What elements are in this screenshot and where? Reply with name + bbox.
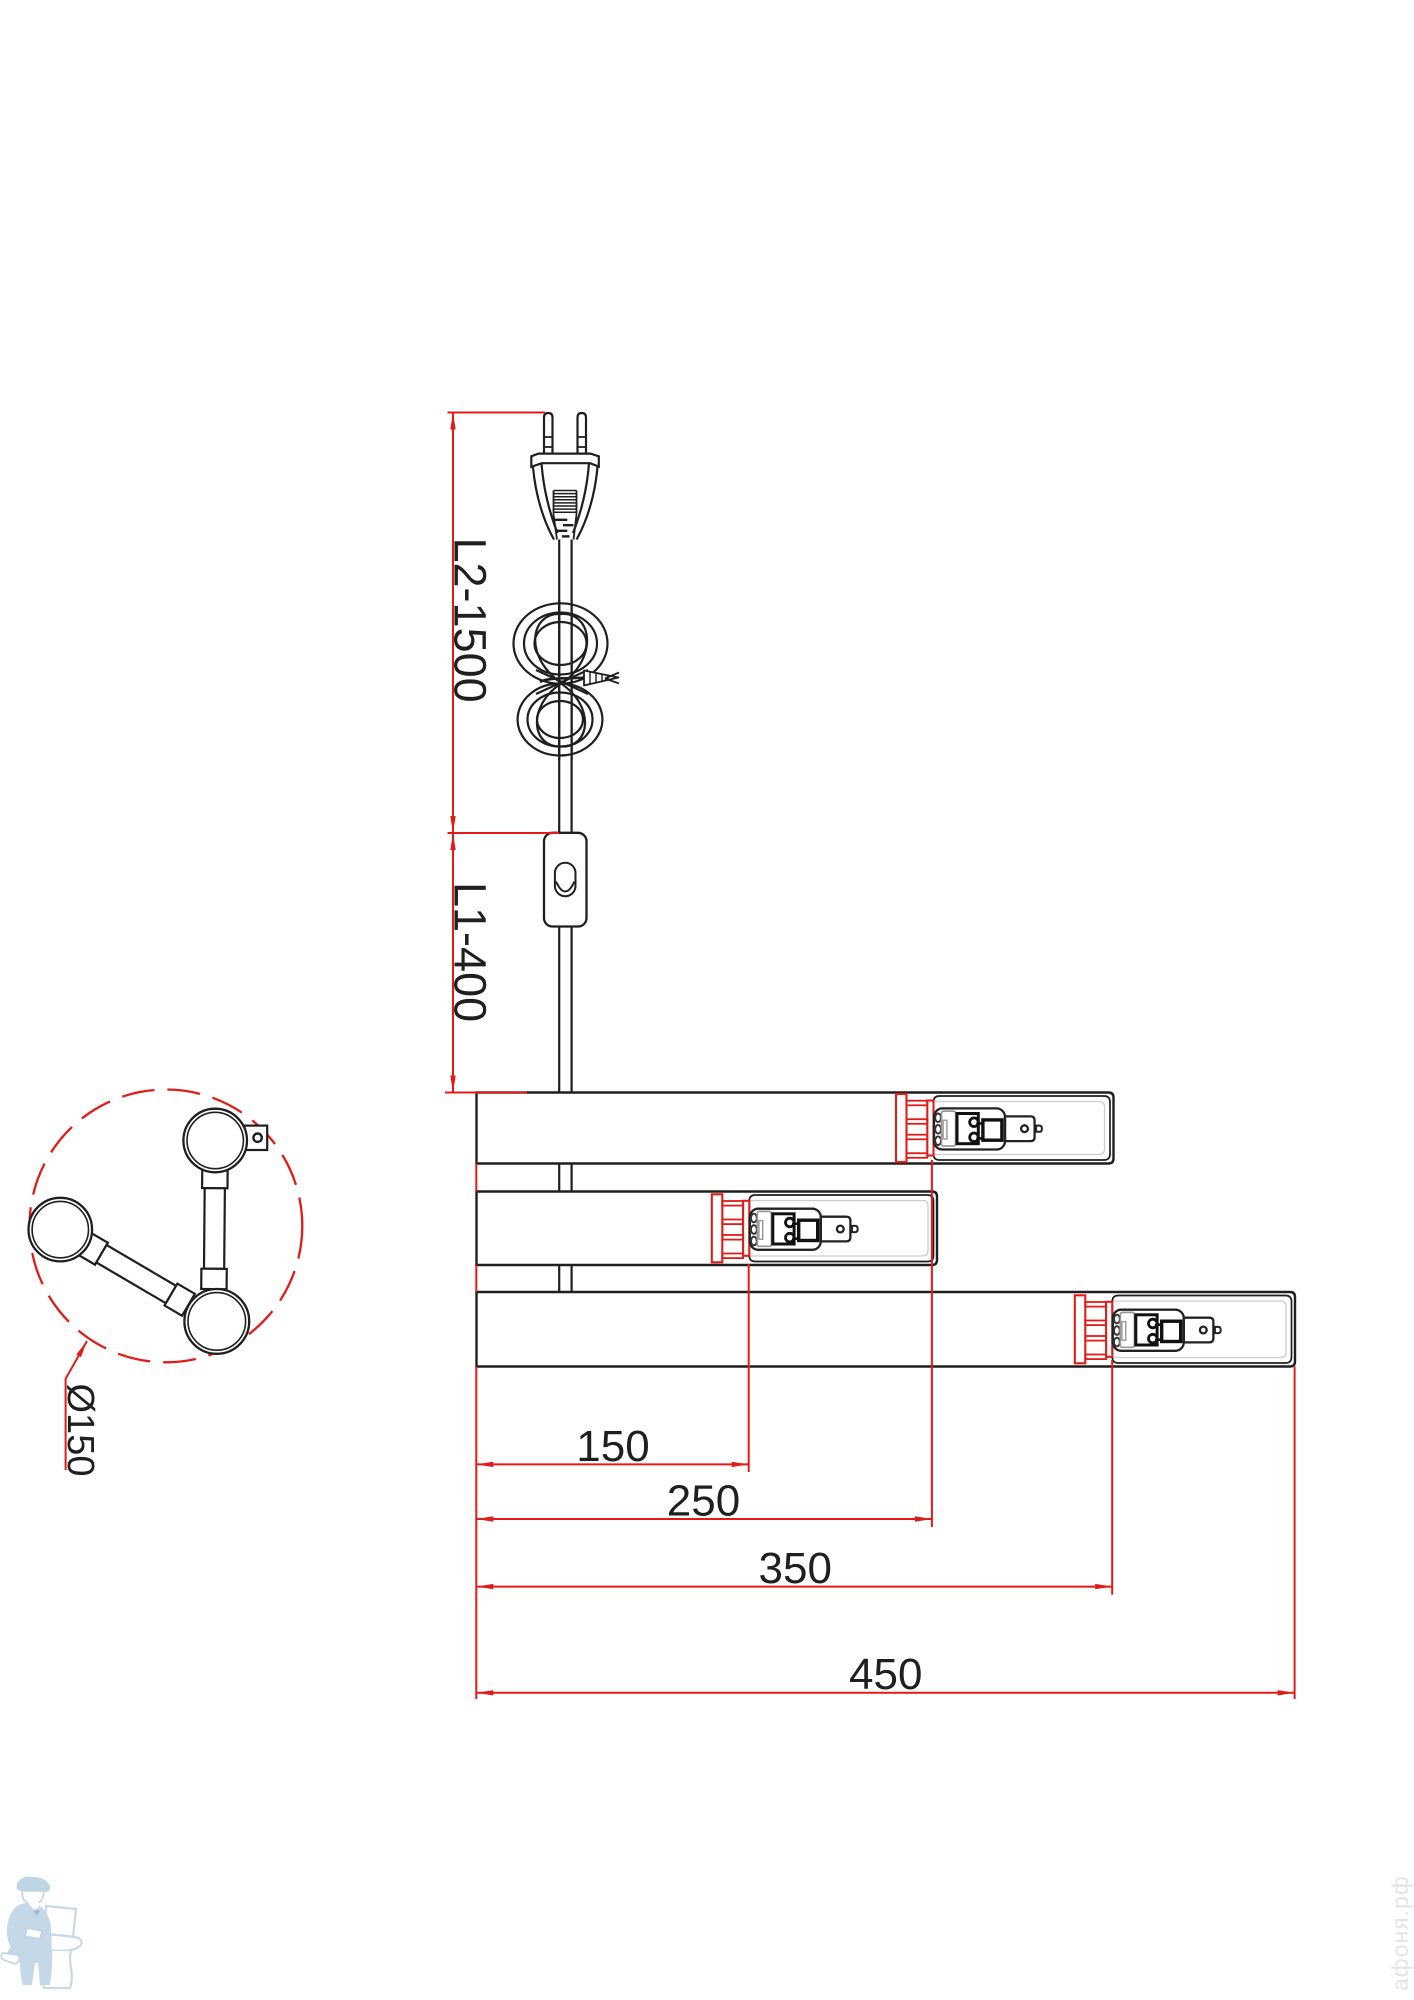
socket bracket 3 (red)	[1075, 1295, 1113, 1363]
socket bracket 2 (red)	[712, 1194, 750, 1262]
leader line for diameter label	[66, 1341, 87, 1470]
twist tie	[540, 678, 584, 683]
svg-text:150: 150	[576, 1422, 649, 1471]
plug flange	[531, 454, 599, 467]
G9 bulb 1	[934, 1108, 1042, 1149]
plug strain relief	[554, 515, 558, 540]
sphere S2	[29, 1198, 93, 1262]
plug grip stripes	[554, 491, 577, 513]
dashed detail circle	[30, 1090, 303, 1363]
svg-text:Ø150: Ø150	[59, 1384, 101, 1477]
svg-text:450: 450	[849, 1650, 922, 1699]
svg-text:350: 350	[759, 1544, 832, 1593]
plug body outline	[533, 467, 554, 540]
svg-text:L2-1500: L2-1500	[445, 538, 496, 703]
svg-text:L1-400: L1-400	[445, 882, 496, 1022]
left prong	[544, 413, 553, 454]
socket tab on sphere S1	[245, 1126, 268, 1150]
sphere S1	[183, 1109, 247, 1173]
right prong	[578, 413, 587, 454]
svg-text:афоня.рф: афоня.рф	[1387, 1875, 1413, 1991]
arm tube S1-S3 (vertical)	[201, 1169, 227, 1289]
sphere S3	[184, 1289, 249, 1354]
socket bracket 1 (red)	[896, 1094, 934, 1162]
cord through knot	[558, 600, 560, 760]
svg-text:250: 250	[667, 1477, 740, 1526]
arm tube S2-S3 (diagonal)	[79, 1233, 195, 1316]
G9 bulb 3	[1113, 1310, 1221, 1351]
switch rocker	[555, 863, 576, 896]
G9 bulb 2	[750, 1209, 858, 1250]
